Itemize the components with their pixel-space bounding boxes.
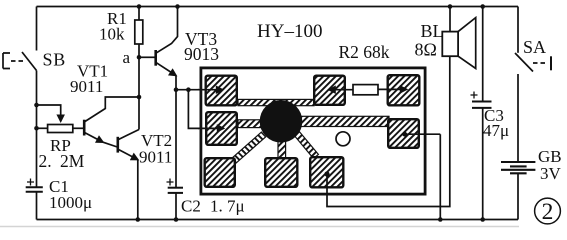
svg-text:47μ: 47μ xyxy=(483,121,509,140)
switch SB xyxy=(3,52,37,71)
svg-text:BL: BL xyxy=(421,21,444,41)
trace leg to pad5 xyxy=(293,130,318,159)
trace leg to pad4 xyxy=(278,136,286,159)
potentiometer RP xyxy=(37,105,85,133)
scan artifact bottom edge xyxy=(0,226,519,228)
node a xyxy=(137,55,142,60)
wire top rail xyxy=(37,6,519,8)
junction speaker / top rail xyxy=(448,4,453,9)
junction VT3 collector / top rail xyxy=(175,4,180,9)
junction RP left terminal / left rail xyxy=(34,126,39,131)
junction RP wiper / left rail xyxy=(34,103,39,108)
svg-text:9011: 9011 xyxy=(139,148,172,167)
battery GB xyxy=(501,162,535,173)
transistor VT2 xyxy=(118,130,139,220)
wire pad5 to speaker xyxy=(327,56,450,206)
pad 4 bottom-mid xyxy=(265,158,297,187)
svg-text:9011: 9011 xyxy=(70,77,103,96)
wire left rail lower (SB to C1, C1 to corner) xyxy=(36,71,38,188)
svg-text:8Ω: 8Ω xyxy=(415,40,437,60)
COB blob U1 xyxy=(260,100,303,143)
svg-text:3V: 3V xyxy=(540,164,562,183)
svg-text:SB: SB xyxy=(43,50,67,70)
switch SA xyxy=(515,53,551,72)
wire pad6 out to bottom rail xyxy=(405,134,441,219)
capacitor C2 xyxy=(168,188,183,193)
wire into pad2 (overlay) xyxy=(198,127,224,129)
svg-text:a: a xyxy=(123,48,131,67)
trace band pad1-pad7 xyxy=(238,99,314,105)
pad 2 mid-left xyxy=(206,112,237,145)
junction VT2 emitter / bottom rail xyxy=(136,217,141,222)
resistor R1 xyxy=(135,7,143,58)
svg-text:C2: C2 xyxy=(181,197,201,216)
pad 5 bottom-right xyxy=(310,157,343,187)
svg-text:1000μ: 1000μ xyxy=(49,193,92,212)
mounting hole xyxy=(336,132,350,146)
pad 6 mid-right xyxy=(388,119,419,148)
junction dot on pad6 xyxy=(402,132,407,137)
trace band pad2-pad6 xyxy=(238,120,266,128)
junction dot on pad5 xyxy=(324,171,329,176)
capacitor C3 xyxy=(482,7,484,102)
wire node a down to VT1/VT2 collectors xyxy=(138,57,140,129)
wire node a to VT3 base xyxy=(139,56,155,58)
junction C2 / bottom rail xyxy=(174,217,179,222)
junction pad2 branch xyxy=(186,87,191,92)
svg-text:10k: 10k xyxy=(99,25,125,44)
figure number 2 xyxy=(535,198,561,224)
wire into pad1 (overlay) xyxy=(198,89,223,91)
wire left rail upper (to SB) xyxy=(36,7,38,51)
junction top rail / R1 xyxy=(137,4,142,9)
module HY-100 board outline xyxy=(201,68,425,194)
svg-text:2M: 2M xyxy=(60,151,85,171)
svg-text:1. 7μ: 1. 7μ xyxy=(210,197,245,216)
junction C3 / bottom rail xyxy=(480,217,485,222)
pad 1 top-left xyxy=(206,76,237,106)
pad 7 top-mid xyxy=(314,76,345,105)
capacitor C1 xyxy=(26,187,43,191)
svg-text:HY–100: HY–100 xyxy=(257,21,322,42)
junction VT1 collector xyxy=(137,95,142,100)
wire VT3 emitter node to pads xyxy=(176,76,199,188)
svg-text:SA: SA xyxy=(523,37,546,57)
svg-text:2: 2 xyxy=(542,199,554,225)
resistor R2 on board xyxy=(329,85,407,95)
junction C3 / top rail xyxy=(480,4,485,9)
junction pad6 wire / bottom rail xyxy=(438,217,443,222)
speaker BL xyxy=(442,7,475,69)
transistor VT3 xyxy=(156,7,178,76)
pad 8 top-right xyxy=(388,75,420,105)
junction VT3 emitter node xyxy=(174,87,179,92)
svg-text:R2 68k: R2 68k xyxy=(339,42,390,62)
svg-text:2.: 2. xyxy=(39,151,52,171)
transistor VT1 xyxy=(84,97,139,147)
pad 3 bottom-left xyxy=(205,158,235,187)
wire right branch SA/GB xyxy=(517,7,519,53)
svg-text:9013: 9013 xyxy=(184,44,219,64)
trace leg to pad3 xyxy=(231,132,266,164)
wire bottom rail xyxy=(37,219,519,221)
